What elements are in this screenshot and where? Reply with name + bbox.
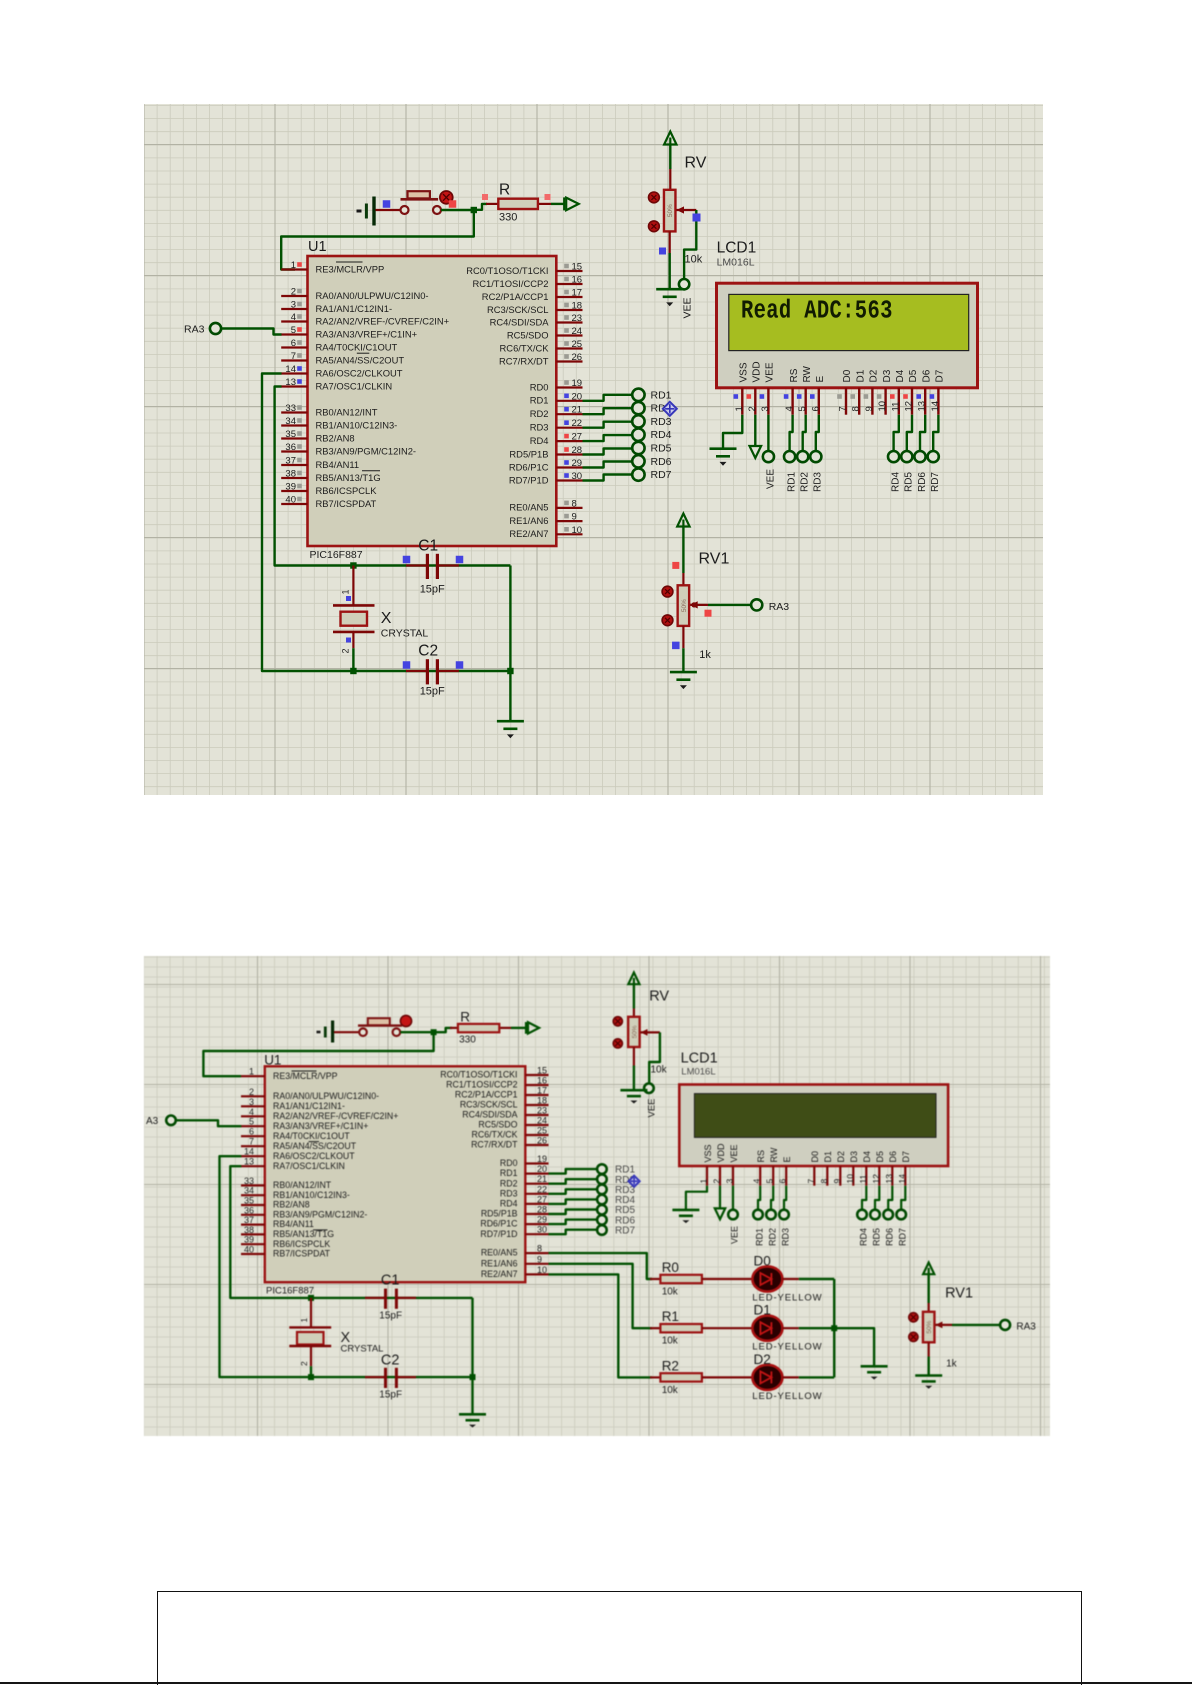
button state indicator red (2) [400,1015,411,1026]
svg-text:10k: 10k [662,1385,679,1396]
U1 overlines (2) [292,1071,328,1230]
svg-text:RD6: RD6 [917,472,928,492]
svg-text:17: 17 [572,288,583,299]
svg-text:C1: C1 [381,1273,400,1289]
svg-text:14: 14 [244,1147,254,1157]
LCD pin stubs (2) [707,1166,905,1186]
svg-text:50%: 50% [631,1025,638,1038]
svg-text:RB3/AN9/PGM/C12IN2-: RB3/AN9/PGM/C12IN2- [273,1209,367,1219]
svg-text:RA5/AN4/SS/C2OUT: RA5/AN4/SS/C2OUT [316,354,405,365]
svg-text:RD5: RD5 [904,472,915,492]
svg-text:RC4/SDI/SDA: RC4/SDI/SDA [462,1110,517,1120]
svg-text:29: 29 [537,1215,547,1225]
svg-text:RD1: RD1 [530,395,549,406]
wire right vertical to ground (2) [471,1298,473,1414]
svg-text:D4: D4 [895,369,906,382]
svg-text:RV1: RV1 [699,551,730,568]
battery power symbol [357,197,375,226]
crystal X (2) [289,1298,331,1377]
wire D2 to bus [782,1376,834,1378]
wire U1 pin10 to R2 [549,1274,653,1377]
svg-text:28: 28 [572,445,583,456]
resistor R2 10k [650,1373,702,1381]
svg-text:2: 2 [299,1361,309,1366]
svg-text:RA6/OSC2/CLKOUT: RA6/OSC2/CLKOUT [273,1151,355,1161]
svg-text:39: 39 [244,1235,254,1245]
labels RD1 RD2 RD3 under LCD [787,472,824,492]
svg-text:36: 36 [285,442,296,453]
svg-text:RC6/TX/CK: RC6/TX/CK [472,1130,518,1140]
svg-text:RA0/AN0/ULPWU/C12IN0-: RA0/AN0/ULPWU/C12IN0- [316,290,429,301]
answer box rectangle [157,1591,1082,1685]
svg-text:RB6/ICSPCLK: RB6/ICSPCLK [316,485,378,496]
blue squares at crystal pins [346,596,351,643]
wire C2 line [353,670,510,672]
svg-text:RD1: RD1 [500,1168,518,1178]
svg-text:D1: D1 [754,1303,771,1318]
wire LCD pin1 to ground (2) [686,1186,707,1210]
output arrow terminal (2) [525,1022,527,1034]
RV bottom pin wire [669,231,671,289]
wire bus to ground [834,1328,874,1366]
labels RD1-RD7 column [651,389,672,481]
svg-text:RC4/SDI/SDA: RC4/SDI/SDA [490,316,550,327]
wire U1 pin13 OSC1 to C1 line (2) [230,1166,311,1298]
junction C2 right (2) [470,1374,476,1380]
wire LCD pin1 VSS to ground [723,415,742,449]
svg-text:RC5/SDO: RC5/SDO [507,329,549,340]
svg-text:6: 6 [810,406,821,411]
svg-text:13: 13 [917,401,928,412]
terminals RD1-RD3 under LCD (2) [753,1210,789,1220]
svg-text:RA4/T0CKI/C1OUT: RA4/T0CKI/C1OUT [273,1131,350,1141]
red state square [449,200,457,208]
svg-text:RD1: RD1 [754,1228,764,1246]
svg-text:RB4/AN11: RB4/AN11 [316,459,360,470]
wire LCD pin2 VDD (2) [719,1186,721,1209]
LCD1 pin stubs 1-14 [742,388,938,415]
svg-text:RV: RV [685,155,707,172]
svg-text:RS: RS [756,1150,766,1163]
svg-text:14: 14 [930,401,941,412]
LCD1 pin name labels [739,361,946,382]
RV wiper wire (2) [641,1029,660,1084]
svg-text:28: 28 [537,1205,547,1215]
svg-text:10k: 10k [662,1336,679,1347]
svg-text:RA0/AN0/ULPWU/C12IN0-: RA0/AN0/ULPWU/C12IN0- [273,1091,379,1101]
svg-text:19: 19 [572,378,583,389]
svg-text:33: 33 [244,1176,254,1186]
bottom page divider line [0,1682,1192,1685]
wire R1 to D1 [702,1327,753,1329]
svg-text:A3: A3 [146,1116,159,1127]
svg-text:LCD1: LCD1 [717,240,757,257]
U1 right pin stubs and numbers [556,262,582,536]
wires LCD pins 4-6 (2) [758,1186,786,1210]
LCD pin numbers (2) [699,1174,907,1184]
svg-text:D5: D5 [908,369,919,382]
svg-text:VEE: VEE [729,1144,739,1162]
terminals RD1 RD2 RD3 under LCD [784,451,821,462]
labels RD4-RD7 under LCD [891,472,942,492]
svg-text:15pF: 15pF [420,584,445,596]
svg-text:4: 4 [752,1179,762,1184]
svg-text:RB7/ICSPDAT: RB7/ICSPDAT [316,498,377,509]
svg-text:10: 10 [845,1174,855,1184]
wire R2 to D2 [702,1376,753,1378]
svg-text:12: 12 [871,1174,881,1184]
svg-text:RD2: RD2 [500,1178,518,1188]
svg-text:15pF: 15pF [379,1390,402,1401]
svg-text:29: 29 [572,458,583,469]
svg-text:RB0/AN12/INT: RB0/AN12/INT [273,1180,332,1190]
labels RD4-RD7 under LCD (2) [858,1228,907,1246]
svg-text:RE0/AN5: RE0/AN5 [481,1248,518,1258]
button state indicator (red) [440,191,453,204]
svg-text:RD2: RD2 [800,472,811,492]
svg-text:1: 1 [734,406,745,411]
RA3 terminal circle [210,323,221,334]
svg-text:RD3: RD3 [530,422,549,433]
svg-text:50%: 50% [681,599,688,612]
wire node down-left to U1 pin 1 [281,210,474,270]
svg-text:10: 10 [877,401,888,412]
ground under RV (2) [620,1089,647,1092]
svg-text:RD3: RD3 [813,472,824,492]
svg-text:Read ADC:563: Read ADC:563 [741,296,893,326]
svg-text:1: 1 [249,1067,254,1077]
svg-text:9: 9 [832,1179,842,1184]
svg-text:9: 9 [572,512,577,523]
terminals RD4-RD7 under LCD [888,451,939,462]
svg-text:VEE: VEE [765,469,776,489]
svg-text:13: 13 [244,1157,254,1167]
svg-text:RW: RW [769,1147,779,1162]
svg-text:8: 8 [537,1244,542,1254]
RV bottom pin wire (2) [633,1047,635,1090]
svg-text:25: 25 [537,1126,547,1136]
svg-text:RD2: RD2 [767,1228,777,1246]
svg-text:RD7/P1D: RD7/P1D [509,474,549,485]
svg-text:RD4: RD4 [530,435,549,446]
svg-text:7: 7 [291,351,296,362]
potentiometer RV body [664,190,676,232]
svg-text:13: 13 [884,1174,894,1184]
LED D1 [752,1316,782,1341]
wire U1 pin14 OSC2 to C2 line (2) [220,1156,312,1377]
svg-text:U1: U1 [308,239,327,255]
svg-text:35: 35 [285,429,296,440]
svg-text:1: 1 [699,1179,709,1184]
op U1 PIC16F887 body (2) [265,1066,526,1282]
svg-text:CRYSTAL: CRYSTAL [381,628,429,640]
wire LCD pin3 VEE [767,415,769,451]
LED cathode bus wire [833,1279,835,1377]
potentiometer RV1 body [678,585,690,626]
blue squares at C2 [403,661,464,669]
svg-text:36: 36 [244,1205,254,1215]
svg-text:20: 20 [537,1164,547,1174]
svg-text:5: 5 [291,325,296,336]
wire C2 line (2) [311,1376,473,1378]
svg-text:D0: D0 [842,369,853,382]
terminals RD1-RD7 column (2) [597,1164,607,1235]
svg-text:18: 18 [537,1096,547,1106]
wire RA3 to U1 pin5 [221,329,281,335]
wire C1 line (2) [311,1297,473,1299]
svg-text:6: 6 [778,1179,788,1184]
svg-text:5: 5 [249,1117,254,1127]
svg-text:RD1: RD1 [651,389,672,401]
svg-text:5: 5 [765,1179,775,1184]
pink square at RV1 wiper [705,610,712,617]
RA3 output terminal circle [751,599,762,610]
svg-text:LM016L: LM016L [681,1067,715,1078]
svg-text:23: 23 [572,313,583,324]
svg-text:25: 25 [572,339,583,350]
svg-text:RB3/AN9/PGM/C12IN2-: RB3/AN9/PGM/C12IN2- [316,445,417,456]
wire button to node (2) [400,1031,433,1033]
svg-text:C1: C1 [418,538,438,555]
wire node to U1 pin1 (2) [203,1032,433,1076]
wire U1 pin9 to R1 [549,1264,653,1328]
schematic 2 grid background [144,956,1050,1436]
svg-text:RC1/T1OSI/CCP2: RC1/T1OSI/CCP2 [472,278,548,289]
svg-text:RW: RW [802,365,813,382]
svg-text:RD3: RD3 [500,1188,518,1198]
svg-text:26: 26 [572,352,583,363]
U1 left pin labels [316,263,450,509]
svg-text:D5: D5 [875,1151,885,1163]
svg-text:RA1/AN1/C12IN1-: RA1/AN1/C12IN1- [316,303,393,314]
capacitor C2 (2) [365,1368,416,1388]
svg-text:D7: D7 [901,1151,911,1163]
svg-text:35: 35 [244,1196,254,1206]
svg-text:4: 4 [249,1107,254,1117]
pink state squares at R [482,194,551,200]
svg-text:18: 18 [572,301,583,312]
svg-text:24: 24 [537,1116,547,1126]
svg-text:1: 1 [291,260,296,271]
capacitor C2 [406,659,459,684]
svg-text:RD6/P1C: RD6/P1C [509,461,549,472]
svg-text:9: 9 [864,406,875,411]
schematic screenshot 1 [144,104,1043,795]
wire R to output terminal (2) [511,1027,526,1029]
blue state square at RV wiper [693,214,701,222]
cursor crosshair on RD2 [663,402,677,416]
svg-text:5: 5 [797,406,808,411]
wire D1 to bus [782,1327,834,1329]
svg-text:RD7: RD7 [930,472,941,492]
svg-text:R: R [499,182,510,199]
potentiometer RV body (2) [628,1017,640,1047]
svg-text:RB2/AN8: RB2/AN8 [273,1200,310,1210]
labels RD1-RD7 column (2) [615,1165,635,1237]
svg-text:20: 20 [572,391,583,402]
svg-text:RB2/AN8: RB2/AN8 [316,432,355,443]
svg-text:1k: 1k [946,1359,958,1370]
svg-text:8: 8 [819,1179,829,1184]
svg-text:16: 16 [537,1076,547,1086]
svg-text:2: 2 [249,1087,254,1097]
terminals RD1-RD7 column [632,389,644,481]
svg-text:RE0/AN5: RE0/AN5 [509,502,548,513]
U1 right pin labels [466,265,549,539]
svg-text:39: 39 [285,482,296,493]
svg-text:C2: C2 [381,1353,400,1369]
svg-text:6: 6 [249,1127,254,1137]
svg-text:E: E [815,376,826,383]
svg-text:RD6/P1C: RD6/P1C [480,1219,518,1229]
svg-text:VEE: VEE [682,297,694,318]
RV knob buttons (2) [613,1017,622,1048]
svg-text:30: 30 [537,1225,547,1235]
svg-text:RB5/AN13/T1G: RB5/AN13/T1G [316,472,381,483]
svg-text:8: 8 [851,406,862,411]
svg-text:10: 10 [537,1265,547,1275]
svg-text:RD7: RD7 [898,1228,908,1246]
svg-text:RA7/OSC1/CLKIN: RA7/OSC1/CLKIN [316,380,393,391]
wire U1 pin13 OSC1 to C1 line [275,387,354,566]
LCD1 body [717,283,978,388]
svg-text:RD4: RD4 [891,472,902,492]
power arrow above RV [664,132,676,191]
push button switch [401,191,442,214]
svg-text:330: 330 [459,1035,476,1046]
LCD1 pin numbers [734,401,941,412]
svg-text:12: 12 [904,401,915,412]
pink square at RV1 top [672,562,679,569]
svg-text:7: 7 [838,406,849,411]
svg-text:RD3: RD3 [651,416,672,428]
svg-text:24: 24 [572,326,583,337]
svg-text:VDD: VDD [752,361,763,382]
svg-text:VEE: VEE [730,1226,740,1244]
svg-text:RD2: RD2 [530,408,549,419]
svg-text:RD7/P1D: RD7/P1D [480,1229,517,1239]
ground at LCD VSS (2) [672,1209,699,1212]
svg-text:LED-YELLOW: LED-YELLOW [752,1391,822,1402]
RV1 wiper wire to RA3 (2) [935,1322,999,1329]
svg-text:RA7/OSC1/CLKIN: RA7/OSC1/CLKIN [273,1161,345,1171]
svg-text:15: 15 [537,1066,547,1076]
svg-text:4: 4 [784,406,795,411]
svg-text:RC7/RX/DT: RC7/RX/DT [471,1140,518,1150]
wire R to output terminal [551,203,564,205]
svg-text:RC2/P1A/CCP1: RC2/P1A/CCP1 [482,291,549,302]
svg-text:23: 23 [537,1106,547,1116]
svg-text:22: 22 [537,1184,547,1194]
svg-text:16: 16 [572,275,583,286]
svg-text:6: 6 [291,338,296,349]
wire battery to button (2) [334,1031,359,1033]
svg-text:RA6/OSC2/CLKOUT: RA6/OSC2/CLKOUT [316,367,403,378]
VEE terminal at LCD pin3 (2) [728,1210,738,1220]
svg-text:50%: 50% [926,1320,933,1333]
svg-text:RE1/AN6: RE1/AN6 [509,515,548,526]
svg-text:RE3/MCLR/VPP: RE3/MCLR/VPP [316,263,385,274]
svg-text:D6: D6 [921,369,932,382]
svg-text:2: 2 [341,648,351,653]
U1 left pin stubs and numbers (2) [241,1067,265,1255]
svg-text:RD4: RD4 [651,429,672,441]
junction LED bus [831,1325,837,1331]
svg-text:21: 21 [572,405,583,416]
svg-text:10: 10 [572,525,583,536]
svg-text:RB0/AN12/INT: RB0/AN12/INT [316,406,378,417]
svg-text:RD6: RD6 [651,456,672,468]
svg-text:34: 34 [285,416,296,427]
svg-text:11: 11 [890,402,901,412]
svg-text:8: 8 [572,498,577,509]
svg-text:RC7/RX/DT: RC7/RX/DT [499,355,549,366]
svg-text:RE3/MCLR/VPP: RE3/MCLR/VPP [273,1071,338,1081]
svg-text:D7: D7 [935,369,946,382]
U1 right pin labels (2) [440,1070,518,1279]
wire battery to button [376,209,401,211]
wire right vertical to ground [509,566,511,722]
svg-text:RB5/AN13/T1G: RB5/AN13/T1G [273,1229,334,1239]
svg-text:2: 2 [712,1179,722,1184]
svg-text:RB1/AN10/C12IN3-: RB1/AN10/C12IN3- [273,1190,350,1200]
svg-text:RC0/T1OSO/T1CKI: RC0/T1OSO/T1CKI [466,265,548,276]
svg-text:37: 37 [285,456,296,467]
svg-text:38: 38 [244,1225,254,1235]
svg-text:RA2/AN2/VREF-/CVREF/C2IN+: RA2/AN2/VREF-/CVREF/C2IN+ [316,315,450,326]
svg-text:330: 330 [499,212,517,224]
wires LCD pins 11-14 (2) [862,1186,905,1210]
svg-text:RB6/ICSPCLK: RB6/ICSPCLK [273,1239,330,1249]
potentiometer RV1 body (2) [923,1312,935,1343]
resistor R 330 (2) [450,1024,511,1032]
power arrow above RV1 (2) [923,1263,934,1313]
RV1 knob buttons (2) [909,1313,918,1342]
svg-text:D6: D6 [888,1151,898,1163]
LED D0 [752,1266,782,1291]
junction crystal bottom (2) [308,1374,314,1380]
RV wiper wire [677,206,697,279]
terminals RD4-RD7 under LCD (2) [857,1210,906,1220]
VDD power arrow down [750,446,762,458]
push button switch (2) [358,1018,402,1036]
svg-text:1: 1 [341,589,351,594]
RV knob buttons [649,192,660,232]
ground under RV1 (2) [915,1374,942,1377]
svg-text:LCD1: LCD1 [681,1051,718,1067]
resistor R1 10k [650,1324,702,1332]
ground under RV [656,288,683,291]
svg-text:15pF: 15pF [379,1311,402,1322]
schematic 1 grid background [144,104,1043,795]
ground under RV1 [670,671,697,674]
svg-text:37: 37 [244,1215,254,1225]
svg-text:E: E [782,1156,792,1162]
VEE terminal circle under RV [679,279,689,289]
svg-text:D1: D1 [823,1151,833,1163]
power arrow above RV (2) [628,973,639,1018]
wires LCD pins 4-6 RS RW E [790,415,819,451]
svg-text:RV1: RV1 [945,1286,973,1302]
svg-text:CRYSTAL: CRYSTAL [341,1344,384,1355]
crystal X [333,566,375,672]
ground LED bus [861,1365,888,1368]
svg-text:RC5/SDO: RC5/SDO [478,1120,517,1130]
svg-text:RA3: RA3 [184,324,205,336]
svg-text:D4: D4 [862,1151,872,1163]
svg-text:RD3: RD3 [780,1228,790,1246]
svg-text:3: 3 [725,1179,735,1184]
